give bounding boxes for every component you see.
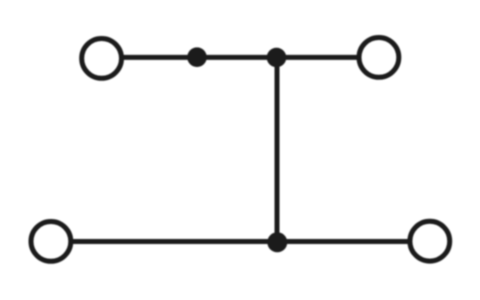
wire bottom (51, 239, 430, 244)
terminal circle (top-left clamp point) (82, 39, 122, 79)
terminal circle (bottom-right clamp point) (410, 221, 450, 261)
wire vertical (275, 57, 280, 241)
wire top (102, 55, 379, 60)
junction dot on top wire (187, 47, 207, 67)
junction (bottom, vertical wire meets bottom wire) (267, 232, 287, 252)
terminal circle (top-right clamp point) (359, 38, 399, 78)
terminal circle (bottom-left clamp point) (31, 222, 71, 262)
junction (top, vertical wire meets top wire) (267, 48, 287, 68)
